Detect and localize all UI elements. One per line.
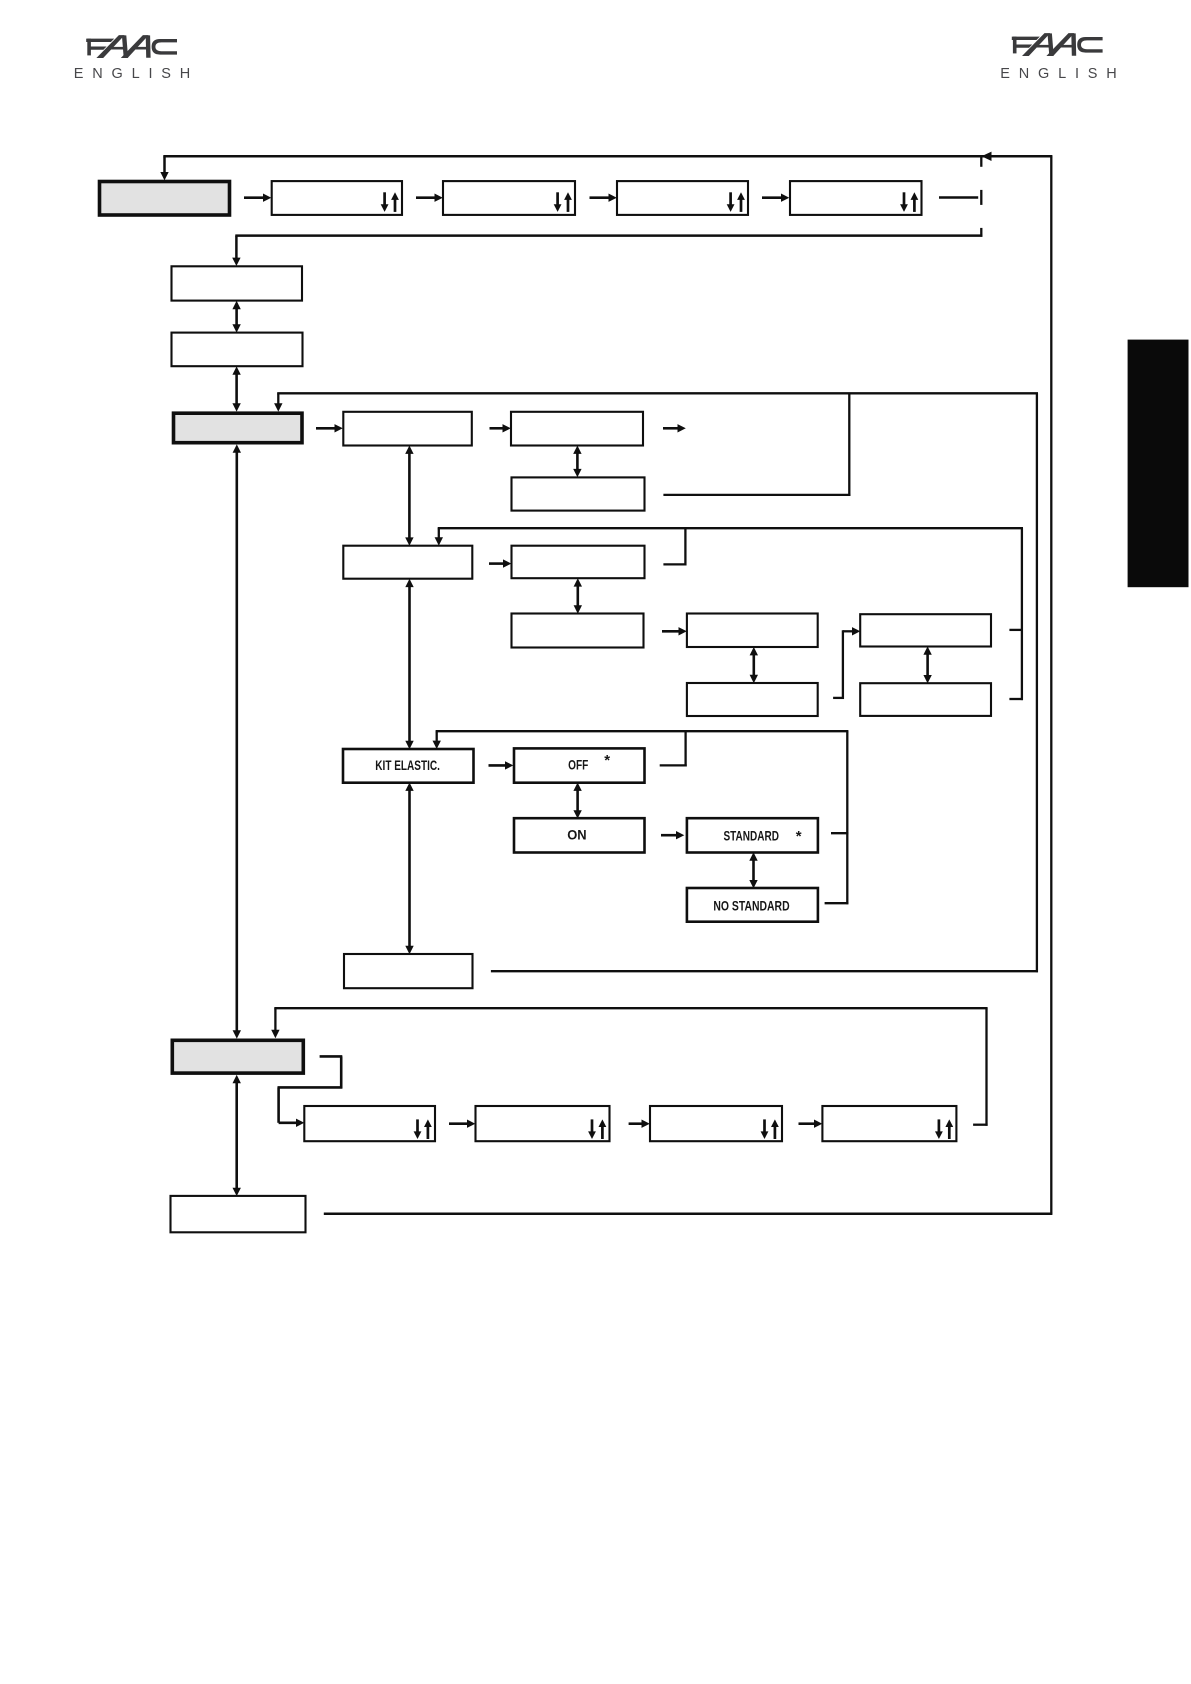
box F feedback wire — [663, 494, 850, 496]
box K2 — [860, 683, 991, 716]
box E — [511, 412, 643, 446]
lower kit box — [344, 954, 473, 988]
double arrow G-KIT — [408, 586, 411, 743]
wire K bracket upper foot — [1009, 629, 1023, 631]
box J2 — [687, 683, 818, 716]
arrow into box K — [843, 630, 853, 632]
double arrow E-F — [576, 452, 579, 470]
menu box 1 (gray) — [100, 182, 230, 216]
menu box 5 — [790, 181, 922, 215]
menu box 2 — [272, 181, 402, 215]
entry arrow into box A — [235, 236, 238, 259]
double arrow KIT to lower kit box — [408, 789, 411, 947]
box D — [343, 412, 472, 446]
parameter box 1 — [304, 1106, 435, 1141]
box OFF — [514, 748, 645, 782]
double arrow OFF-ON — [576, 789, 579, 811]
kit return wire — [491, 970, 1038, 972]
box ON — [514, 818, 645, 852]
double arrow A-B — [235, 308, 238, 326]
arrow I to J — [662, 630, 679, 633]
dashed link segment 1 — [980, 158, 982, 167]
arrow box1 to box2 — [244, 196, 264, 199]
box I — [512, 614, 644, 648]
double arrow J-J2 — [752, 654, 755, 676]
wire NO STANDARD bracket lower foot — [825, 902, 849, 904]
svg-text:OFF: OFF — [568, 756, 589, 772]
arrow into parameter box 1 — [279, 1122, 297, 1125]
rail C feedback — [277, 392, 1038, 394]
box K — [860, 614, 991, 646]
arrow param1 to param2 — [449, 1122, 468, 1125]
parameter box 4 — [822, 1106, 956, 1141]
FAAC logo top-right — [1012, 33, 1103, 56]
arrow ON to STANDARD — [661, 834, 677, 837]
bottom feedback rail — [324, 1213, 1053, 1216]
double arrow gray box 2 to bottom box — [235, 1082, 238, 1190]
wire param return vertical — [985, 1008, 987, 1126]
entry arrow into KIT ELASTIC box — [436, 731, 438, 742]
double arrow H-I — [576, 585, 579, 607]
rail to box G — [438, 527, 1023, 529]
wire kit bracket vertical — [846, 731, 848, 904]
svg-text:*: * — [604, 752, 610, 769]
arrow param3 to param4 — [799, 1122, 815, 1125]
box J — [687, 614, 818, 648]
box OFF feedback wire — [660, 764, 687, 766]
svg-text:ON: ON — [567, 827, 586, 843]
box H — [512, 546, 645, 579]
left-pointing arrowhead on top rail — [982, 152, 992, 161]
right feedback rail vertical — [1050, 156, 1052, 1214]
entry arrow into box G — [438, 528, 440, 538]
entry arrow into box C — [277, 393, 279, 404]
svg-text:ENGLISH: ENGLISH — [1000, 66, 1125, 82]
FAAC logo top-left — [86, 35, 177, 58]
long double arrow C to gray box 2 — [236, 451, 239, 1031]
svg-text:STANDARD: STANDARD — [723, 827, 779, 843]
entry arrow into gray box 2 — [274, 1008, 276, 1031]
wire K bracket vertical — [1021, 528, 1023, 700]
box G — [343, 546, 472, 579]
wire J2 to K step — [833, 697, 844, 699]
box B — [172, 333, 303, 367]
rail to submenu column — [235, 234, 982, 237]
box H feedback wire — [663, 563, 686, 565]
double arrow K-K2 — [926, 653, 929, 676]
arrow box4 to box5 — [762, 196, 782, 199]
arrow box2 to box3 — [416, 196, 435, 199]
dashed link segment 2 — [980, 190, 982, 205]
gray menu box 2 — [172, 1040, 303, 1073]
svg-text:KIT ELASTIC.: KIT ELASTIC. — [375, 757, 440, 773]
double arrow STANDARD-NO STANDARD — [752, 859, 755, 881]
black side tab — [1128, 340, 1189, 588]
parameter box 3 — [650, 1106, 782, 1141]
entry arrow into menu box 1 — [163, 156, 166, 173]
feedback vertical to kit return — [1036, 393, 1038, 972]
wire box5 to dashed link — [939, 196, 978, 199]
svg-text:NO STANDARD: NO STANDARD — [713, 897, 789, 913]
double arrow D-G — [408, 452, 411, 539]
top feedback rail — [163, 155, 1052, 158]
parameter box 2 — [476, 1106, 610, 1141]
wire STANDARD bracket mid foot — [831, 832, 848, 834]
arrow param2 to param3 — [629, 1122, 642, 1125]
box STANDARD — [687, 818, 818, 852]
rail into gray box 2 — [274, 1007, 987, 1009]
box A — [172, 266, 303, 300]
bottom box — [171, 1196, 306, 1232]
box F — [512, 477, 645, 510]
menu box 3 — [443, 181, 575, 215]
menu box 4 — [617, 181, 748, 215]
arrow box3 to box4 — [590, 196, 610, 199]
svg-text:*: * — [796, 828, 802, 845]
dashed link segment 3 — [980, 228, 982, 237]
arrow D to E — [490, 427, 504, 430]
continue arrow after E — [663, 427, 678, 430]
box C (gray) — [174, 413, 303, 443]
box KIT ELASTIC. — [343, 749, 474, 783]
arrow G to H — [489, 562, 504, 565]
arrow KIT to OFF — [489, 764, 506, 767]
wire gray box 2 step connector — [320, 1055, 343, 1058]
double arrow B-C — [235, 373, 238, 404]
arrow C to D — [316, 427, 335, 430]
wire K bracket lower foot — [1009, 698, 1023, 700]
svg-text:ENGLISH: ENGLISH — [74, 66, 199, 82]
wire param4 foot — [973, 1124, 988, 1126]
box NO STANDARD — [687, 888, 818, 922]
kit rail — [436, 730, 849, 732]
